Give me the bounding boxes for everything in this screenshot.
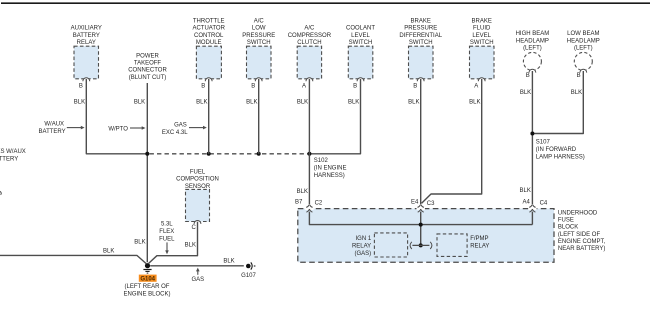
svg-text:AUXILIARY: AUXILIARY [71, 26, 102, 32]
svg-text:CONTROL: CONTROL [194, 33, 224, 39]
svg-text:RELAY: RELAY [77, 40, 96, 46]
svg-text:F/PMP: F/PMP [470, 236, 488, 242]
svg-text:BLK: BLK [134, 99, 145, 105]
svg-text:E4: E4 [411, 199, 419, 205]
svg-text:BRAKE: BRAKE [472, 18, 492, 24]
svg-text:(BLUNT CUT): (BLUNT CUT) [129, 75, 167, 81]
svg-text:C: C [191, 225, 196, 231]
svg-text:BLK: BLK [103, 249, 114, 255]
svg-text:BLK: BLK [408, 99, 419, 105]
svg-text:(LEFT): (LEFT) [523, 46, 542, 52]
svg-text:G107: G107 [241, 273, 256, 279]
svg-text:G104: G104 [140, 276, 155, 282]
svg-text:DIFFERENTIAL: DIFFERENTIAL [399, 33, 442, 39]
svg-text:SWITCH: SWITCH [409, 40, 433, 46]
svg-text:LEVEL: LEVEL [472, 33, 491, 39]
svg-text:BLK: BLK [196, 99, 207, 105]
svg-text:ENGINE COMPT,: ENGINE COMPT, [558, 239, 606, 245]
svg-text:FUEL: FUEL [159, 236, 175, 242]
svg-text:BRAKE: BRAKE [411, 18, 431, 24]
svg-text:VEHICLES W/AUX: VEHICLES W/AUX [0, 149, 26, 155]
svg-text:UNDERHOOD: UNDERHOOD [558, 210, 598, 216]
svg-text:POWER: POWER [136, 53, 159, 59]
svg-text:IGN 1: IGN 1 [356, 236, 372, 242]
svg-text:S107: S107 [536, 140, 551, 146]
svg-text:(LEFT REAR OF: (LEFT REAR OF [125, 284, 170, 290]
svg-text:LAMP HARNESS): LAMP HARNESS) [536, 154, 585, 160]
svg-text:SWITCH: SWITCH [349, 40, 373, 46]
svg-text:BLK: BLK [297, 99, 308, 105]
svg-text:C3: C3 [427, 201, 435, 207]
svg-text:PRESSURE: PRESSURE [404, 26, 437, 32]
svg-text:BLK: BLK [348, 99, 359, 105]
svg-text:5.3L: 5.3L [161, 222, 173, 228]
svg-text:THROTTLE: THROTTLE [193, 18, 225, 24]
svg-text:B: B [201, 84, 205, 90]
svg-text:TAKEOFF: TAKEOFF [134, 61, 162, 67]
svg-text:ACTUATOR: ACTUATOR [192, 26, 225, 32]
svg-text:BLK: BLK [185, 242, 196, 248]
svg-text:RELAY: RELAY [470, 243, 489, 249]
svg-text:FLEX: FLEX [159, 229, 174, 235]
svg-text:EXC 4.3L: EXC 4.3L [162, 130, 188, 136]
svg-text:B: B [577, 73, 581, 79]
svg-text:BLK: BLK [520, 90, 531, 96]
svg-text:FLUID: FLUID [473, 26, 491, 32]
svg-text:B: B [79, 84, 83, 90]
svg-text:A4: A4 [522, 199, 530, 205]
svg-text:BLK: BLK [246, 99, 257, 105]
svg-text:BLOCK: BLOCK [558, 225, 578, 231]
svg-text:HARNESS): HARNESS) [314, 173, 345, 179]
svg-text:FUEL: FUEL [190, 169, 206, 175]
svg-text:A: A [474, 84, 478, 90]
svg-text:SWITCH: SWITCH [247, 40, 271, 46]
svg-text:GAS: GAS [174, 122, 187, 128]
svg-text:GAS: GAS [191, 277, 204, 283]
svg-text:BLK: BLK [469, 99, 480, 105]
svg-text:C4: C4 [540, 200, 548, 206]
svg-text:COMPRESSOR: COMPRESSOR [288, 33, 332, 39]
svg-text:A: A [302, 84, 306, 90]
svg-text:A/C: A/C [254, 18, 265, 24]
svg-text:(LEFT SIDE OF: (LEFT SIDE OF [558, 232, 601, 238]
svg-text:C2: C2 [315, 201, 323, 207]
svg-text:BATTERY: BATTERY [39, 129, 66, 135]
svg-text:COMPOSITION: COMPOSITION [176, 177, 219, 183]
svg-text:HEADLAMP: HEADLAMP [567, 39, 600, 45]
svg-text:LOW BEAM: LOW BEAM [567, 31, 599, 37]
svg-text:HIGH BEAM: HIGH BEAM [516, 31, 550, 37]
svg-text:BLK: BLK [520, 188, 531, 194]
svg-text:PRESSURE: PRESSURE [242, 33, 275, 39]
svg-text:BLK: BLK [571, 90, 582, 96]
svg-text:B7: B7 [295, 199, 303, 205]
svg-text:(GAS): (GAS) [355, 251, 372, 257]
svg-text:CONNECTOR: CONNECTOR [128, 68, 167, 74]
svg-text:BATTERY: BATTERY [0, 156, 18, 162]
svg-text:BLK: BLK [134, 239, 145, 245]
svg-text:A/C: A/C [304, 26, 315, 32]
svg-text:LOW: LOW [252, 26, 266, 32]
svg-text:COOLANT: COOLANT [346, 26, 375, 32]
svg-text:BATTERY: BATTERY [73, 33, 100, 39]
svg-text:(IN FORWARD: (IN FORWARD [536, 147, 577, 153]
svg-text:MODULE: MODULE [196, 40, 222, 46]
svg-text:BLK: BLK [223, 259, 234, 265]
svg-text:BLK: BLK [74, 99, 85, 105]
svg-text:FUSE: FUSE [558, 218, 574, 224]
svg-text:W/AUX: W/AUX [44, 122, 64, 128]
svg-text:B: B [251, 84, 255, 90]
svg-text:B: B [413, 84, 417, 90]
svg-text:(LEFT): (LEFT) [574, 46, 593, 52]
svg-text:BLK: BLK [297, 189, 308, 195]
svg-text:LEVEL: LEVEL [351, 33, 370, 39]
svg-text:SWITCH: SWITCH [470, 40, 494, 46]
svg-text:B: B [526, 73, 530, 79]
svg-text:RELAY: RELAY [352, 243, 371, 249]
svg-text:HEADLAMP: HEADLAMP [516, 39, 549, 45]
svg-text:CLUTCH: CLUTCH [297, 40, 321, 46]
svg-text:W/PTO: W/PTO [108, 127, 128, 133]
svg-text:B: B [353, 84, 357, 90]
svg-text:ENGINE BLOCK): ENGINE BLOCK) [123, 292, 170, 298]
svg-text:(IN ENGINE: (IN ENGINE [314, 165, 347, 171]
svg-text:NEAR BATTERY): NEAR BATTERY) [558, 246, 605, 252]
svg-text:S102: S102 [314, 158, 329, 164]
